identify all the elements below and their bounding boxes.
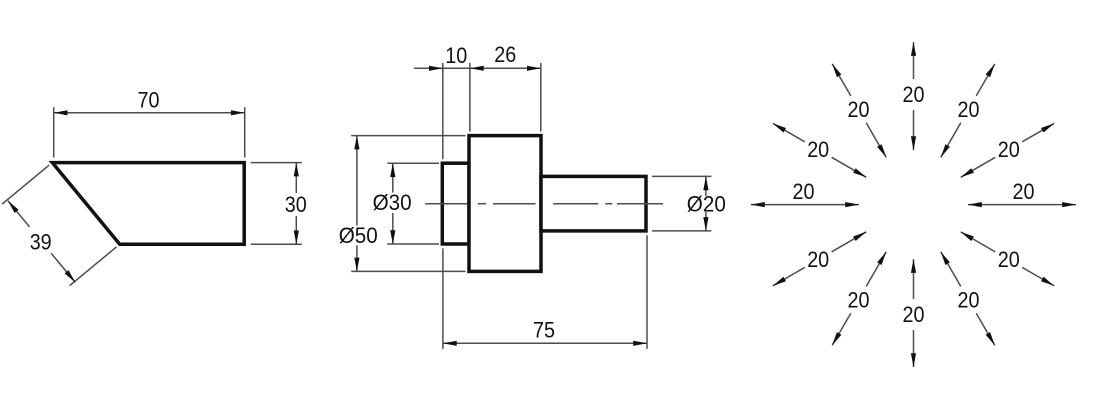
middle view small step outline [442, 163, 469, 244]
svg-text:20: 20 [807, 247, 829, 272]
svg-text:39: 39 [30, 229, 52, 254]
dimension 70 line and arrows [54, 110, 245, 115]
dimension diameter 30 extension lines [387, 163, 439, 244]
svg-text:10: 10 [445, 43, 467, 68]
svg-text:70: 70 [138, 88, 160, 113]
svg-text:20: 20 [998, 247, 1020, 272]
dimension 26 extension line [540, 63, 542, 132]
radial dimension 20 arrow at 300 degrees [941, 252, 995, 345]
radial dimension 20 arrow at 30 degrees [961, 123, 1054, 177]
radial dimension 20 arrow at 210 degrees [773, 232, 867, 286]
svg-text:20: 20 [958, 97, 980, 122]
dimension 30 text [285, 192, 307, 217]
dimension diameter 50 extension lines [351, 136, 465, 272]
dimension 30 line and arrows [294, 163, 299, 245]
dimension 70 text [138, 88, 160, 113]
dimension 39 extension lines [2, 165, 116, 286]
radial dimension 20 arrow at 270 degrees [903, 259, 925, 367]
svg-text:Ø20: Ø20 [687, 191, 726, 216]
radial dimension 20 arrow at 330 degrees [961, 232, 1054, 286]
dimension diameter 50 text [339, 223, 378, 248]
radial dimension 20 arrow at 60 degrees [941, 64, 995, 157]
dimension diameter 20 text [687, 191, 726, 216]
dimension 30 extension lines [251, 163, 302, 245]
svg-text:20: 20 [1013, 179, 1035, 204]
svg-text:26: 26 [494, 42, 516, 67]
svg-text:20: 20 [958, 287, 980, 312]
dimension 10 extension lines [443, 63, 470, 159]
svg-text:20: 20 [793, 179, 815, 204]
dimension 10 line and arrow [414, 66, 470, 71]
centerline [425, 203, 663, 205]
svg-text:20: 20 [807, 137, 829, 162]
dimension 26 text [494, 42, 516, 67]
dimension diameter 20 line and arrows [703, 176, 708, 231]
dimension 10 text [445, 43, 467, 68]
svg-text:20: 20 [903, 302, 925, 327]
svg-text:20: 20 [848, 97, 870, 122]
svg-text:20: 20 [998, 137, 1020, 162]
dimension diameter 30 text [373, 190, 412, 215]
svg-text:Ø50: Ø50 [339, 223, 378, 248]
dimension 75 line and arrows [443, 341, 647, 346]
dimension 75 text [533, 318, 555, 343]
radial dimension 20 arrow at 240 degrees [832, 252, 886, 345]
svg-text:20: 20 [848, 287, 870, 312]
svg-text:30: 30 [285, 192, 307, 217]
dimension 39 line and arrows [8, 201, 75, 283]
svg-text:75: 75 [533, 318, 555, 343]
dimension 70 extension lines [54, 107, 245, 157]
svg-text:Ø30: Ø30 [373, 190, 412, 215]
radial dimension 20 arrow at 120 degrees [832, 64, 886, 157]
dimension 39 text [30, 229, 52, 254]
middle view shaft outline [541, 176, 646, 231]
left view outline [52, 163, 244, 245]
dimension diameter 50 line and arrows [354, 136, 359, 272]
dimension 75 extension lines [443, 235, 647, 349]
dimension diameter 30 line and arrows [390, 163, 395, 244]
radial dimension 20 arrow at 180 degrees [751, 179, 859, 207]
radial dimension 20 arrow at 150 degrees [773, 123, 867, 177]
dimension diameter 20 extension lines [652, 176, 711, 231]
middle view large cylinder outline [469, 136, 541, 272]
dimension 26 line and arrows [470, 66, 541, 71]
svg-text:20: 20 [903, 82, 925, 107]
radial dimension 20 arrow at 0 degrees [968, 179, 1076, 207]
radial dimension 20 arrow at 90 degrees [903, 42, 925, 150]
